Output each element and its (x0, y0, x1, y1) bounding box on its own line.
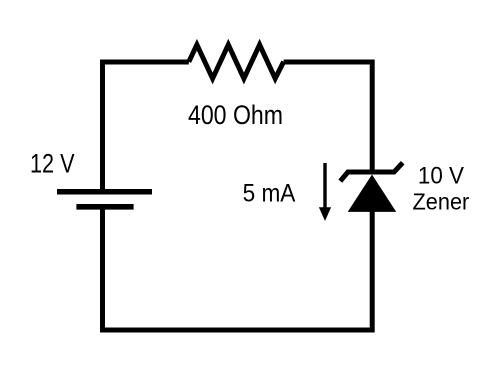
wire bottom: zener down, bottom wire, left wire up to battery (103, 207, 373, 330)
svg-text:10 V: 10 V (418, 162, 465, 189)
resistor R1 (189, 45, 284, 79)
wire top-right: resistor to top-right corner, down to zener (284, 62, 373, 172)
current arrow head (319, 207, 331, 221)
zener D1 triangle (348, 175, 397, 212)
zener D1 cathode bar with hooks (340, 163, 402, 181)
battery B1 short plate (-) (76, 204, 133, 210)
wire top-left: left wire from battery up, top wire to resistor (103, 62, 189, 192)
battery B1 long plate (+) (57, 189, 152, 195)
current arrow shaft (323, 163, 326, 208)
svg-text:Zener: Zener (413, 189, 470, 215)
svg-text:400 Ohm: 400 Ohm (188, 100, 283, 130)
svg-text:12 V: 12 V (30, 149, 75, 179)
svg-text:5 mA: 5 mA (243, 179, 296, 207)
